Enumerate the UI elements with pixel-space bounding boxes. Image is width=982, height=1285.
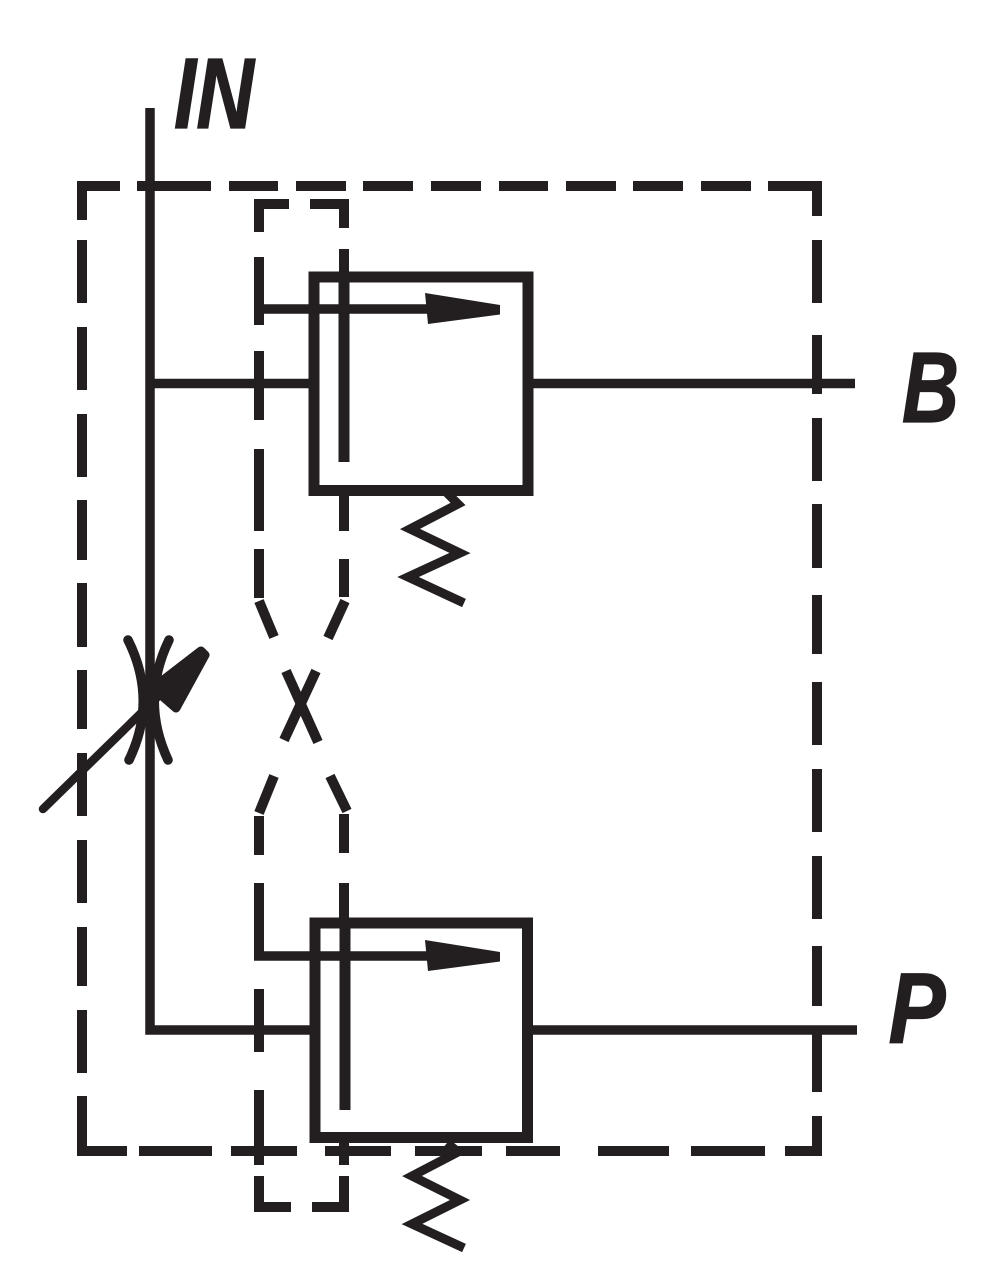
enclosure boundary: top edge (dashed) [82, 186, 817, 220]
wire: valve V2 outlet to port P [527, 1025, 857, 1035]
pilot line crossing: descending left-to-right dashes [259, 601, 347, 811]
enclosure boundary: bottom edge (dashed) [139, 1116, 817, 1151]
pilot envelope: right side lower dashes [339, 814, 349, 1165]
valve V2 internal passage line [340, 926, 351, 1110]
enclosure boundary: left edge (dashed) [82, 240, 127, 1151]
valve V2 pilot line with flow arrow [254, 951, 462, 961]
valve V1 pilot line with flow arrow [254, 304, 462, 314]
spring of valve V2 [412, 1143, 464, 1248]
wire: branch from supply to valve V1 inlet [150, 379, 314, 389]
svg-text:B: B [902, 332, 959, 444]
svg-text:P: P [889, 953, 946, 1065]
throttle valve F1 adjustment arrow [43, 677, 178, 809]
pilot envelope: left side lower dashes [254, 816, 264, 1165]
pilot envelope: left side upper dashes [254, 257, 264, 598]
wire: valve V1 outlet to port B [528, 379, 855, 389]
pilot envelope: right side upper dashes [339, 249, 349, 597]
valve V1 internal passage line [339, 280, 350, 462]
svg-text:IN: IN [174, 38, 255, 150]
throttle valve F1 arcs [128, 640, 169, 760]
pilot line crossing: descending right-to-left dashes [259, 601, 345, 813]
pilot envelope: top edge with corners (dashed) [259, 204, 344, 232]
valve V2 body [315, 923, 528, 1138]
wire: IN supply vertical with elbow to valve V2 [150, 108, 315, 1030]
pilot envelope: bottom edge with corners (dashed) [259, 1176, 344, 1207]
enclosure boundary: right edge (dashed) [812, 240, 822, 1092]
valve V1 body [314, 277, 528, 491]
spring of valve V1 [408, 492, 464, 603]
